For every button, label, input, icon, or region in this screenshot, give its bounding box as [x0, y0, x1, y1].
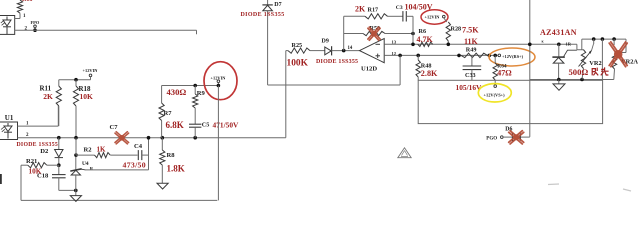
junction dot R50 right / C3 — [411, 32, 415, 36]
svg-text:2.8K: 2.8K — [421, 69, 438, 78]
wire: +12VIN middle drop to bottom rail — [217, 86, 219, 201]
junction dot C5 bottom — [193, 136, 197, 140]
svg-text:DIODE 1SS355: DIODE 1SS355 — [241, 12, 285, 18]
svg-text:FPO: FPO — [31, 20, 40, 25]
resistor R18 — [75, 80, 77, 86]
wire: +12VIN left node rail — [59, 79, 91, 81]
svg-text:R9: R9 — [197, 90, 206, 97]
wire: main horizontal net from U1 pin 2 — [18, 137, 286, 139]
box outline (sub-circuit) — [418, 80, 602, 123]
svg-text:U12D: U12D — [361, 65, 377, 72]
svg-text:VR2: VR2 — [589, 60, 601, 67]
svg-text:C18: C18 — [37, 172, 49, 179]
svg-text:R21: R21 — [26, 158, 37, 165]
wire: box right edge up to L2 — [601, 39, 603, 80]
svg-text:R2: R2 — [84, 147, 93, 154]
junction dot R18 top — [74, 78, 78, 82]
junction dot VR2 bottom — [580, 78, 584, 82]
junction dot D2 anode — [57, 136, 61, 140]
stray mark left edge — [0, 174, 2, 184]
svg-text:DIODE 1SS355: DIODE 1SS355 — [316, 59, 358, 65]
junction dot on pin13 line at long vertical — [528, 43, 532, 47]
junction dot pin14 feedback — [342, 49, 346, 53]
svg-text:1.8K: 1.8K — [167, 164, 185, 174]
svg-text:10K: 10K — [80, 92, 94, 101]
junction dot R48 top — [416, 54, 420, 58]
svg-text:U1: U1 — [5, 114, 14, 122]
red ellipse annotation around top-right +12VIN — [421, 10, 448, 24]
wire: pin12 feedback down — [399, 55, 401, 85]
stray mark bottom right 2 — [623, 189, 631, 191]
diode D7 — [267, 0, 269, 5]
svg-text:6.8K: 6.8K — [166, 120, 184, 130]
wire: D7 jog to feedback net — [268, 84, 286, 86]
resistor R48 — [416, 60, 420, 77]
diode D2 — [58, 138, 60, 150]
svg-text:14: 14 — [348, 46, 353, 51]
wire: R25/D7/main-net vertical — [285, 51, 287, 138]
junction dot R2 left — [74, 153, 78, 157]
junction dot R18/R2/U4 node — [74, 136, 78, 140]
junction dot at FPO node — [33, 28, 37, 32]
wire: R2 branch from node — [75, 138, 77, 155]
capacitor C5 — [189, 123, 201, 125]
wire: C3/R50 vertical to pin13 — [412, 16, 414, 44]
svg-text:C33: C33 — [465, 72, 476, 79]
resistor R11 — [58, 80, 60, 86]
svg-text:C5: C5 — [202, 122, 210, 129]
wire: FPO horizontal rail — [15, 29, 197, 31]
svg-text:U4: U4 — [82, 161, 89, 167]
wire: U4 reference line — [86, 169, 149, 171]
svg-text:C7: C7 — [110, 124, 119, 131]
orange ellipse annotation around +12V(RS+) — [489, 48, 535, 66]
resistor R2 — [76, 154, 95, 156]
svg-text:2K: 2K — [43, 92, 53, 101]
svg-text:1K: 1K — [97, 146, 107, 154]
resistor lead from pin 1 to top edge (cut off) — [15, 18, 20, 20]
svg-text:D9: D9 — [322, 38, 329, 44]
X mark over D6 — [509, 131, 524, 144]
svg-text:4.7K: 4.7K — [417, 35, 434, 44]
wire: pin 12 net — [384, 54, 497, 56]
svg-text:100K: 100K — [287, 59, 309, 69]
stray mark bottom right 1 — [548, 183, 559, 186]
wire: C18 bottom to U4 ground node — [59, 189, 76, 191]
svg-text:DIODE 1SS355: DIODE 1SS355 — [17, 142, 59, 148]
resistor R7 — [161, 86, 163, 104]
resistor R8 — [161, 138, 163, 150]
svg-text:+12VIN: +12VIN — [83, 68, 99, 73]
X mark over VR2A — [609, 42, 627, 67]
wire: R7/R9 top rail — [162, 85, 219, 87]
svg-text:+12VIN: +12VIN — [425, 15, 441, 20]
wire: R21 left down to bottom rail — [20, 165, 22, 200]
junction dot on pin 13 line — [411, 43, 415, 47]
resistor R17 — [344, 15, 365, 17]
wire: pin 13 net — [384, 43, 577, 45]
svg-text:R28: R28 — [451, 26, 462, 33]
capacitor C33 — [471, 55, 473, 66]
wire: C4 right vertical joining main net and U4 ref — [148, 138, 150, 170]
svg-text:R8: R8 — [167, 152, 176, 159]
junction dot R28 bottom — [447, 43, 451, 47]
junction dot AZ431 cathode — [557, 43, 561, 47]
wire: U1 pin 1 to R11 bottom — [18, 125, 59, 127]
op-amp plus sign — [376, 55, 381, 57]
svg-text:47Ω: 47Ω — [497, 69, 512, 78]
junction dot R7 bottom — [161, 136, 165, 140]
U4 reference pin bend — [82, 168, 86, 171]
VR2 wiper arrow — [593, 39, 595, 44]
AZ431 reference pin bend — [564, 50, 577, 57]
wire: bottom rail — [21, 199, 217, 201]
optocoupler U1 LED diode — [7, 123, 9, 126]
potentiometer VR2A (crossed out) — [625, 39, 627, 52]
svg-text:7.5K: 7.5K — [462, 26, 479, 35]
junction dot D2 cathode / R21 / C18 — [57, 163, 61, 167]
svg-text:PGO: PGO — [486, 137, 497, 142]
junction dot VR2A on L2 — [612, 37, 616, 41]
svg-text:+12V(RS+): +12V(RS+) — [502, 54, 524, 59]
optocoupler U1 arrows — [1, 127, 4, 130]
junction dot R49 right — [488, 54, 492, 58]
wire: op-amp lower feedback line — [286, 84, 400, 86]
op-amp U12D — [360, 39, 385, 63]
svg-text:430Ω: 430Ω — [167, 87, 187, 97]
warning triangle symbol — [398, 148, 411, 158]
resistor R49 — [461, 53, 488, 57]
svg-text:C3: C3 — [396, 5, 403, 11]
svg-text:2K: 2K — [355, 5, 366, 14]
terminal +12V(RS+) — [498, 54, 501, 57]
potentiometer VR2 — [581, 50, 585, 69]
wire: upper right rail L2 — [582, 38, 626, 40]
resistor R64 — [494, 55, 496, 63]
wire: long vertical net (top to D6) — [529, 0, 531, 137]
junction dot +12VIN middle — [217, 84, 221, 88]
resistor R9 — [194, 86, 196, 95]
optocoupler U LED arrows — [1, 21, 4, 24]
svg-text:R49: R49 — [466, 46, 477, 53]
svg-text:D7: D7 — [274, 2, 281, 8]
svg-text:1R: 1R — [566, 41, 572, 46]
terminal +12V(VS+) — [494, 85, 497, 88]
junction dot box-edge on L2 — [601, 37, 605, 41]
svg-text:473/50: 473/50 — [123, 161, 146, 170]
red ellipse annotation around +12VIN — [204, 62, 237, 100]
anode rail with AZ431/VR2/VR2A — [530, 79, 614, 81]
optocoupler U LED diode — [6, 17, 8, 21]
svg-text:C4: C4 — [134, 143, 143, 150]
shunt regulator AZ431AN — [558, 44, 560, 57]
junction dot feedback takeoff — [398, 54, 402, 58]
svg-text:AZ431AN: AZ431AN — [540, 28, 577, 37]
junction dot R49 left — [457, 54, 461, 58]
ground (U4/C18) — [75, 190, 77, 195]
svg-text:R18: R18 — [22, 0, 32, 3]
svg-text:13: 13 — [392, 39, 397, 44]
svg-text:471/50V: 471/50V — [213, 121, 240, 130]
junction dot ground node U4 — [74, 189, 78, 193]
junction dot R9 top — [193, 84, 197, 88]
svg-text:+12V(VS+): +12V(VS+) — [484, 92, 506, 97]
svg-text:D2: D2 — [40, 148, 49, 155]
junction dot C4 branch top — [147, 136, 151, 140]
junction dot AZ431 anode — [557, 78, 561, 82]
wire: R17/R50 left vertical — [343, 16, 345, 50]
yellow ellipse annotation around +12V(VS+) — [478, 84, 511, 102]
svg-text:R7: R7 — [164, 110, 173, 117]
wire: stub down at end of FPO rail — [196, 30, 198, 34]
op-amp minus sign — [376, 43, 381, 45]
ground (R8) — [157, 183, 168, 189]
junction dot R64 top — [493, 54, 497, 58]
resistor R28 — [444, 18, 447, 22]
svg-text:11K: 11K — [464, 37, 479, 46]
optocoupler U (top-left, cut off at edge) — [0, 16, 15, 35]
junction dot VR2 wiper on L2 — [592, 37, 596, 41]
svg-text:500Ω: 500Ω — [569, 67, 589, 77]
ground (AZ431) — [558, 80, 560, 84]
svg-text:R17: R17 — [368, 6, 379, 13]
wire: pin13 step to VR2 top — [576, 44, 578, 49]
